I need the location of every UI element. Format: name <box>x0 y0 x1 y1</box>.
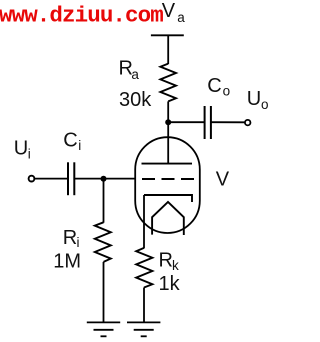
wire Va bar to Ra <box>167 35 169 64</box>
cathode <box>144 195 192 202</box>
svg-text:www.dziuu.com: www.dziuu.com <box>0 2 163 28</box>
node A junction dot <box>165 119 171 125</box>
label Ci <box>63 129 81 153</box>
wire node A to Co <box>168 121 204 123</box>
svg-text:30k: 30k <box>119 89 152 111</box>
resistor Ri <box>95 222 111 262</box>
svg-text:U: U <box>247 88 261 110</box>
wire Ci to node B <box>74 178 103 180</box>
ground (left) <box>87 322 120 336</box>
svg-text:R: R <box>63 227 77 249</box>
svg-text:o: o <box>261 97 269 112</box>
resistor Rk <box>136 248 152 288</box>
svg-text:i: i <box>78 138 81 153</box>
wire Rk to ground <box>143 288 145 323</box>
heater filament <box>152 202 184 235</box>
capacitor Ci <box>68 162 74 195</box>
svg-text:k: k <box>172 258 179 273</box>
label Ra <box>119 57 140 82</box>
svg-text:a: a <box>177 10 185 25</box>
tube V envelope <box>135 137 200 233</box>
grid (dashed) <box>142 178 195 180</box>
label Ui <box>14 138 31 162</box>
wire Ui to Ci <box>35 178 68 180</box>
wire Co to Uo terminal <box>211 121 245 123</box>
node B junction dot <box>101 176 107 182</box>
svg-text:1M: 1M <box>53 250 81 272</box>
svg-text:i: i <box>28 146 31 161</box>
svg-text:U: U <box>14 138 28 160</box>
terminal Uo <box>245 120 251 126</box>
svg-text:1k: 1k <box>159 273 181 295</box>
supply node Va <box>151 0 185 35</box>
svg-text:C: C <box>63 129 77 151</box>
wire node B to Ri <box>103 179 105 223</box>
wire node B to grid <box>104 178 135 180</box>
resistor Ra <box>160 64 176 102</box>
svg-text:i: i <box>77 235 80 250</box>
capacitor Co <box>205 106 211 139</box>
wire cathode to Rk <box>143 195 145 248</box>
ground (right) <box>127 322 160 336</box>
anode plate <box>142 163 193 165</box>
svg-text:C: C <box>207 75 221 97</box>
svg-text:V: V <box>162 0 176 22</box>
wire node A to anode <box>167 122 169 163</box>
label Co <box>207 75 230 98</box>
svg-text:a: a <box>131 67 139 82</box>
svg-text:o: o <box>223 83 231 98</box>
label Ri <box>63 227 80 250</box>
svg-text:R: R <box>159 250 173 272</box>
terminal Ui <box>29 176 35 182</box>
wire Ri to ground <box>103 262 105 323</box>
wire Ra to node A <box>167 101 169 122</box>
svg-text:V: V <box>216 169 230 191</box>
label Uo <box>247 88 269 112</box>
label Rk <box>159 250 180 273</box>
